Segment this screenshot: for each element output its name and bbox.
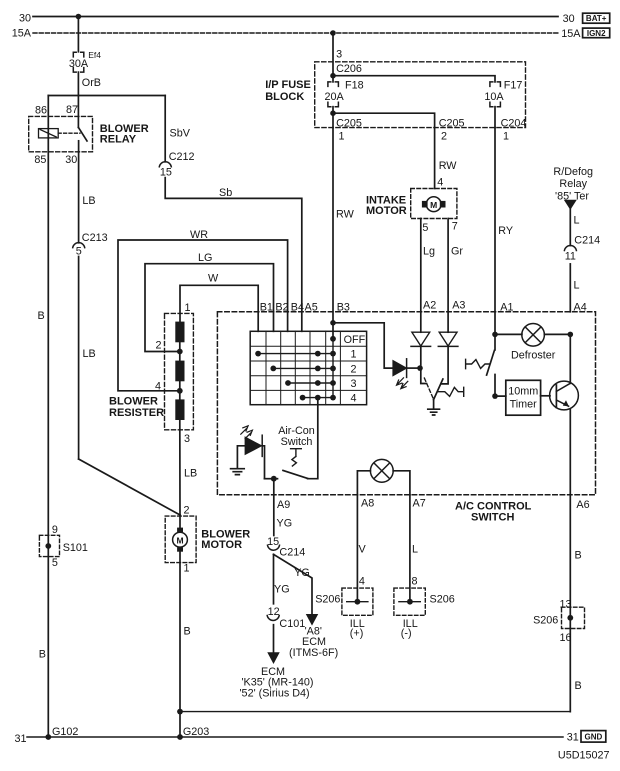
svg-text:9: 9 — [52, 524, 58, 536]
R/Defog relay source triangle — [565, 200, 576, 209]
wire: SbV vertical from OrB node — [164, 96, 166, 162]
wire: W loop from resistor top to B1 column — [180, 285, 258, 331]
wire: B3 branch to A/C indicator LED — [333, 323, 393, 368]
svg-text:12: 12 — [268, 606, 280, 618]
svg-text:BAT+: BAT+ — [586, 14, 607, 23]
svg-text:31: 31 — [567, 732, 579, 744]
splice S206 (13/16) dashed box — [562, 607, 585, 628]
blower relay switch blade — [78, 127, 87, 141]
svg-text:S206: S206 — [533, 615, 558, 627]
svg-text:30: 30 — [563, 13, 575, 25]
wire: timer output to transistor base — [541, 395, 550, 397]
wire: stub into fuse F18 — [332, 76, 334, 82]
svg-text:Defroster: Defroster — [511, 349, 556, 361]
wire: Gr from intake motor pin 7 to A3 — [447, 219, 449, 312]
svg-text:C214: C214 — [574, 235, 600, 247]
svg-text:A6: A6 — [576, 499, 589, 511]
node: B3 junction dot — [330, 320, 336, 326]
blower relay K: dashed enclosure — [29, 116, 93, 151]
wire: A3 inside box to diode — [447, 312, 449, 332]
wire: LB below C213 — [78, 257, 80, 460]
wire: LG loop to B2 column and tap 2 — [145, 264, 274, 352]
svg-text:C212: C212 — [169, 151, 195, 163]
wire: relay pin 87 drop — [77, 96, 79, 128]
svg-text:2: 2 — [156, 340, 162, 352]
svg-text:15A: 15A — [561, 28, 581, 40]
svg-text:A3: A3 — [452, 300, 465, 312]
svg-text:1: 1 — [184, 562, 190, 574]
transistor Q1 — [550, 381, 579, 410]
wire: B from blower motor pin 1 to G203 — [179, 552, 181, 737]
wire: YG main below C214 to C101 — [273, 554, 275, 603]
svg-text:F18: F18 — [345, 80, 364, 92]
wire: defroster lamp to A4 — [544, 333, 570, 335]
node: C206 junction dot — [330, 73, 336, 79]
svg-text:7: 7 — [452, 221, 458, 233]
svg-text:LB: LB — [184, 468, 197, 480]
resistor R1 element — [175, 322, 184, 343]
wire: A9 out of box — [273, 479, 275, 495]
svg-text:RY: RY — [498, 225, 513, 237]
svg-text:B: B — [38, 310, 45, 322]
svg-text:GND: GND — [585, 733, 603, 742]
intake motor M dashed enclosure — [411, 189, 457, 219]
svg-text:3: 3 — [350, 378, 356, 390]
net tag GND — [581, 731, 606, 743]
node: defroster right junction dot — [568, 332, 574, 338]
svg-text:SWITCH: SWITCH — [471, 511, 514, 523]
svg-text:2: 2 — [184, 504, 190, 516]
linkage dashed (A2 switch) — [424, 378, 433, 399]
svg-text:5: 5 — [422, 222, 428, 234]
wire: F17 output to C204 pin1 — [494, 107, 496, 128]
thermal element on defrost switch — [466, 359, 490, 368]
wire: A4 collector drop — [569, 334, 571, 383]
svg-text:Switch: Switch — [281, 436, 313, 448]
svg-text:2: 2 — [441, 130, 447, 142]
svg-text:B4: B4 — [291, 301, 304, 313]
svg-text:C213: C213 — [82, 232, 108, 244]
svg-text:5: 5 — [76, 246, 82, 258]
svg-text:(-): (-) — [401, 628, 412, 640]
svg-text:4: 4 — [155, 381, 161, 393]
net tag IGN2 — [583, 28, 610, 38]
svg-text:C206: C206 — [336, 63, 362, 75]
wire: A2 inside box to diode — [420, 312, 422, 332]
svg-text:'85' Ter: '85' Ter — [555, 190, 589, 202]
thermal element on A3 switch — [437, 387, 463, 396]
svg-text:U5D15027: U5D15027 — [558, 750, 610, 762]
svg-text:RESISTER: RESISTER — [109, 407, 164, 419]
svg-text:A1: A1 — [500, 302, 513, 314]
svg-text:WR: WR — [190, 229, 208, 241]
wire: blade pivot to ground — [433, 400, 435, 409]
wire: defroster lamp feed left — [495, 333, 522, 335]
svg-text:A8: A8 — [361, 497, 374, 509]
timer U1: 10mm Timer box — [506, 380, 541, 415]
wire: LB resistor pin 3 to blower motor pin 2 — [179, 420, 181, 515]
svg-text:1: 1 — [503, 130, 509, 142]
fuse F17 10A — [490, 82, 501, 107]
svg-text:10mm: 10mm — [508, 386, 538, 398]
wire: emitter to A6 — [569, 409, 571, 495]
svg-text:LG: LG — [198, 252, 212, 264]
wire: WR loop to B4 column and tap 4 — [118, 240, 288, 391]
svg-text:LB: LB — [82, 195, 95, 207]
wire: LB relay output pin 30 down to C213 — [78, 152, 80, 243]
wire: branch to C205 pin2 — [333, 113, 435, 127]
wire: A7 L to S206 — [409, 495, 411, 602]
node: F18 output junction dot — [330, 110, 336, 116]
arrow: to ECM — [268, 653, 279, 663]
connector C213 arc — [73, 243, 85, 248]
svg-text:10A: 10A — [484, 91, 504, 103]
fan switch grid: outer frame — [250, 331, 366, 404]
resistor R3 element — [175, 399, 184, 420]
fan switch contacts: row 1 — [258, 353, 333, 355]
wire: OrB horizontal distribution — [48, 95, 165, 97]
svg-text:11: 11 — [565, 251, 576, 263]
svg-text:F17: F17 — [504, 80, 523, 92]
wire: Lg from intake motor pin 5 to A2 — [420, 219, 422, 312]
fan switch contacts: row 4 — [303, 397, 333, 399]
wire: L from C214 pin 11 to A4 — [569, 264, 571, 312]
svg-text:B1: B1 — [260, 301, 273, 313]
svg-text:(+): (+) — [350, 628, 364, 640]
node: A9 junction dot — [271, 476, 277, 482]
svg-text:B: B — [575, 550, 582, 562]
blower relay linkage (dashed) — [58, 132, 80, 134]
svg-text:L: L — [574, 214, 580, 226]
fan switch contacts: row 3 — [288, 382, 333, 384]
node: S206 13/16 splice dot — [567, 615, 573, 621]
wire: Sb below C212 to A5 column — [165, 178, 302, 332]
I/P fuse block dashed enclosure — [315, 62, 526, 128]
svg-text:B3: B3 — [337, 301, 350, 313]
svg-text:M: M — [176, 535, 183, 545]
svg-text:I/P FUSE: I/P FUSE — [265, 79, 311, 91]
svg-text:1: 1 — [339, 130, 345, 142]
svg-text:M: M — [430, 200, 437, 210]
blower resistor dashed enclosure — [165, 313, 194, 429]
svg-text:OFF: OFF — [344, 334, 366, 346]
svg-text:(ITMS-6F): (ITMS-6F) — [289, 647, 338, 659]
svg-text:16: 16 — [560, 632, 572, 644]
svg-text:S101: S101 — [63, 542, 88, 554]
svg-text:BLOCK: BLOCK — [265, 91, 304, 103]
wire: A3 diode to fixed contact — [442, 346, 448, 384]
wire: grid output to air-con switch — [308, 398, 318, 479]
svg-text:A4: A4 — [574, 302, 587, 314]
node: ground G102 dot — [45, 734, 51, 740]
svg-text:S206: S206 — [430, 594, 455, 606]
svg-text:R/Defog: R/Defog — [553, 166, 593, 178]
svg-text:1: 1 — [185, 302, 191, 314]
svg-text:A7: A7 — [413, 497, 426, 509]
wire: A8 V to S206 — [356, 495, 358, 602]
wire: RW from C205 pin2 to intake motor pin 4 — [434, 128, 436, 189]
lamp: illumination lamp between A8 and A7 — [370, 459, 393, 482]
svg-text:15: 15 — [160, 166, 172, 178]
svg-text:BLOWER: BLOWER — [109, 396, 158, 408]
wire: B3 into switch grid — [332, 323, 334, 339]
svg-text:MOTOR: MOTOR — [201, 539, 242, 551]
fan switch: B3 common column link — [332, 339, 334, 398]
svg-text:4: 4 — [437, 177, 443, 189]
wire: motor pin 2 into motor — [179, 515, 181, 528]
svg-text:2: 2 — [350, 363, 356, 375]
svg-text:RW: RW — [439, 160, 458, 172]
svg-text:30A: 30A — [69, 58, 89, 70]
svg-text:Lg: Lg — [423, 245, 435, 257]
svg-text:A2: A2 — [423, 300, 436, 312]
LED D4 arrows — [241, 426, 248, 434]
resistor R2 element — [175, 361, 184, 382]
svg-text:A9: A9 — [277, 499, 290, 511]
wire: B return horizontal to G203 — [180, 711, 570, 713]
fan switch grid: row lines — [250, 346, 366, 390]
diode D3 (A3) — [439, 332, 457, 346]
svg-text:4: 4 — [350, 393, 356, 405]
svg-text:5: 5 — [52, 557, 58, 569]
fan switch contacts: row 2 — [273, 367, 333, 369]
fan switch contacts: OFF row — [330, 336, 336, 342]
svg-text:RELAY: RELAY — [100, 134, 137, 146]
A/C control switch dashed enclosure — [217, 312, 595, 495]
svg-text:IGN2: IGN2 — [587, 29, 606, 38]
fan switch grid: column lines — [266, 331, 340, 404]
net tag BAT+ — [583, 13, 610, 23]
wire: LED D4 anode to ground — [237, 446, 245, 468]
svg-text:30: 30 — [65, 154, 77, 166]
connector C101 pin 12 cup arc — [267, 616, 279, 621]
node: resistor tap 2 dot — [177, 349, 183, 355]
fuse Ef4 30A — [73, 52, 84, 72]
svg-text:MOTOR: MOTOR — [366, 205, 407, 217]
svg-text:C101: C101 — [279, 618, 305, 630]
node: junction on 30 rail — [76, 14, 82, 20]
node: resistor tap 4 dot — [177, 388, 183, 394]
wire: F18 output to C205 pin1 — [332, 107, 334, 128]
wire: relay pin 30 stub — [78, 141, 80, 152]
svg-text:30: 30 — [19, 13, 31, 25]
defrost switch stub — [494, 334, 496, 350]
svg-text:C205: C205 — [439, 117, 465, 129]
svg-text:B2: B2 — [275, 301, 288, 313]
svg-text:C205: C205 — [336, 117, 362, 129]
connector C212 arc — [159, 162, 171, 167]
wire: lamp to A7 — [393, 471, 410, 495]
splice S101 dashed box — [39, 535, 59, 556]
blower motor M symbol — [177, 528, 183, 532]
node: timer input junction dot — [492, 393, 498, 399]
lamp: defroster indicator — [522, 324, 545, 347]
svg-text:8: 8 — [412, 576, 418, 588]
svg-text:Sb: Sb — [219, 187, 232, 199]
svg-text:G102: G102 — [52, 726, 78, 738]
node: junction on 15A rail — [330, 30, 336, 36]
svg-text:L: L — [412, 544, 418, 556]
wire: ground rail 31 — [27, 736, 563, 738]
LED D1 A/C power indicator — [393, 361, 406, 376]
wire: air-con switch to A9 node — [265, 478, 278, 480]
svg-text:C204: C204 — [501, 117, 527, 129]
svg-text:87: 87 — [66, 104, 78, 116]
wire: A6 B return down right side — [569, 495, 571, 712]
svg-text:YG: YG — [274, 584, 290, 596]
svg-text:G203: G203 — [183, 726, 209, 738]
splice S206 ILL(-) dashed box — [394, 588, 425, 615]
splice S206 ILL(+) dashed box — [342, 588, 373, 615]
switch blade (A2/A3 to ground) — [434, 379, 443, 400]
svg-text:SbV: SbV — [170, 127, 191, 139]
air-con switch blade — [283, 470, 308, 478]
wire: YG branch diagonal to ECM A8 — [274, 554, 313, 614]
node: junction dot on A2 wire — [417, 365, 423, 371]
blower motor dashed enclosure — [165, 516, 196, 563]
svg-text:85: 85 — [34, 154, 46, 166]
wire: RY from C204 pin1 down to A1 — [494, 128, 496, 312]
svg-text:15A: 15A — [12, 28, 32, 40]
svg-text:S206: S206 — [315, 594, 340, 606]
LED D1 arrows — [397, 378, 404, 385]
blower relay coil — [39, 129, 59, 138]
svg-text:RW: RW — [336, 209, 355, 221]
svg-text:V: V — [359, 544, 367, 556]
svg-text:YG: YG — [277, 518, 293, 530]
svg-text:B: B — [39, 649, 46, 661]
wire: L from R/Defog relay to C214 pin 11 — [569, 209, 571, 246]
svg-text:15: 15 — [267, 536, 279, 548]
node: junction dot B return — [177, 709, 183, 715]
svg-text:20A: 20A — [325, 91, 345, 103]
defrost switch blade — [487, 350, 495, 375]
svg-text:A5: A5 — [305, 301, 318, 313]
wire: RW from C205 pin1 down to B3 node — [332, 128, 334, 323]
arrow: to 'A8' ECM — [307, 615, 318, 625]
svg-text:Gr: Gr — [451, 245, 463, 257]
svg-text:86: 86 — [35, 105, 47, 117]
svg-text:B: B — [575, 680, 582, 692]
svg-text:YG: YG — [294, 567, 310, 579]
svg-text:Timer: Timer — [510, 399, 538, 411]
wire: resistor chain internal links — [179, 342, 181, 399]
svg-text:B: B — [184, 626, 191, 638]
svg-text:3: 3 — [184, 433, 190, 445]
node: S101 splice dot — [45, 543, 51, 549]
svg-text:13: 13 — [560, 599, 572, 611]
wire: LED D4 cathode down to A9 node — [262, 446, 264, 479]
air-con switch fixed contact with spring — [291, 449, 302, 466]
svg-text:3: 3 — [336, 49, 342, 61]
wire: 30 rail down to fuse Ef4 — [77, 17, 79, 52]
svg-text:LB: LB — [83, 348, 96, 360]
svg-text:W: W — [208, 273, 219, 285]
ground (air-con LED) — [231, 469, 245, 475]
wire: relay pin 85 / coil to B wire — [47, 138, 49, 737]
node: S206 ILL(+) dot and bar — [347, 601, 368, 603]
svg-text:'52' (Sirius D4): '52' (Sirius D4) — [240, 688, 310, 700]
wire: YG below C101 to ECM — [273, 625, 275, 653]
node: ground G203 dot — [177, 734, 183, 740]
svg-text:Relay: Relay — [559, 178, 587, 190]
wire: internal feed to F17 — [333, 76, 495, 82]
svg-text:4: 4 — [359, 576, 365, 588]
wire: lamp to A8 — [357, 471, 370, 495]
svg-text:31: 31 — [14, 733, 26, 745]
wire: A1 to defroster junction — [494, 312, 496, 335]
wire: A2 diode to lower contact — [421, 346, 427, 383]
wire: LB diagonal to blower motor pin 2 — [79, 459, 180, 515]
wire: pin 3 C206 feed from 15A rail — [332, 33, 334, 76]
svg-text:Ef4: Ef4 — [88, 50, 101, 60]
connector C214 pin 15 cup arc — [268, 545, 280, 550]
LED D4 air-con indicator — [245, 437, 261, 454]
wire: OrB fuse output — [77, 72, 79, 95]
node: S206 ILL(-) dot and bar — [399, 601, 420, 603]
wire: LED D1 cathode to A2 column — [407, 367, 420, 369]
diode D2 (A2) — [412, 332, 430, 346]
intake motor M symbol — [422, 201, 428, 208]
wire: 30 battery rail — [33, 16, 558, 18]
svg-text:OrB: OrB — [82, 77, 101, 89]
ground (A/C switch) — [428, 409, 440, 415]
svg-text:L: L — [574, 280, 580, 292]
node: defroster left junction dot — [492, 332, 498, 338]
wire: relay pin 86 drop — [47, 96, 49, 138]
wire: defrost switch lower contact to timer — [495, 375, 506, 397]
wire: 15A ignition rail (dashed) — [33, 32, 559, 34]
fuse F18 20A — [328, 82, 339, 107]
wire: A9 YG down to C214 pin 15 — [273, 495, 275, 536]
svg-text:1: 1 — [350, 349, 356, 361]
svg-text:C214: C214 — [279, 547, 305, 559]
connector C214 pin 11 arc — [564, 245, 576, 250]
